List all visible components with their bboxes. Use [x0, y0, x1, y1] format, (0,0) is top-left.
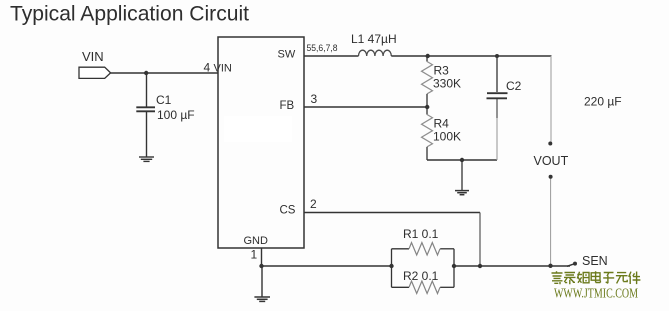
node A junction (VIN / C1)	[144, 71, 148, 75]
label L1 47uH	[351, 32, 397, 46]
wire inductor to top-right corner	[391, 55, 551, 57]
wire R1 top branch right lead	[440, 248, 454, 250]
node F (VOUT upper dot)	[548, 142, 552, 146]
wire R2 bottom branch right lead	[440, 286, 454, 288]
svg-text:330K: 330K	[433, 77, 461, 91]
svg-text:C1: C1	[156, 93, 172, 107]
svg-text:100K: 100K	[433, 130, 461, 144]
svg-text:VIN: VIN	[82, 49, 104, 64]
wire node D to R4 top	[426, 107, 428, 115]
pin number 2	[310, 197, 317, 211]
pin number 1	[251, 248, 258, 262]
capacitor C2	[487, 93, 508, 98]
label R2 0.1	[403, 269, 439, 283]
node D junction (FB / R3 / R4)	[425, 105, 429, 109]
ground G2 (R4/C2)	[455, 191, 469, 195]
node J (R1R2 right node)	[452, 264, 456, 268]
svg-text:SEN: SEN	[582, 254, 608, 268]
node L (VOUT rail / sense rail)	[548, 264, 552, 268]
svg-text:55,6,7,8: 55,6,7,8	[307, 43, 338, 54]
net label VIN	[82, 49, 104, 64]
capacitor C1	[136, 107, 155, 111]
SEN arrow tip	[567, 262, 577, 267]
wire node C to C2 top	[496, 56, 498, 92]
wire R4 bottom to baseline	[426, 147, 428, 160]
wire node E to ground G2	[461, 160, 463, 190]
inductor L1	[359, 50, 392, 56]
svg-text:R1 0.1: R1 0.1	[403, 227, 439, 241]
svg-text:2: 2	[310, 197, 317, 211]
svg-text:R4: R4	[434, 117, 450, 131]
svg-text:4: 4	[204, 61, 211, 75]
wire R1R2 left edge	[391, 249, 393, 287]
watermark chinese text (drawn strokes)	[552, 271, 641, 284]
svg-text:SW: SW	[278, 48, 296, 60]
pin name VIN	[214, 63, 232, 75]
svg-text:VIN: VIN	[214, 63, 232, 75]
ground G1 (C1)	[139, 157, 154, 161]
wire VIN input to IC pin 4	[111, 72, 218, 74]
wire CS pin horizontal	[304, 212, 480, 214]
wire FB pin to node D	[304, 106, 428, 108]
wire R1R2 right edge	[453, 249, 455, 287]
wire R4 bottom rail to C2 bottom	[427, 159, 497, 161]
node C junction (top wire / C2)	[495, 54, 499, 58]
wire node H to ground G3	[261, 266, 263, 297]
input connector VIN tag	[79, 67, 111, 78]
title: Typical Application Circuit	[10, 2, 249, 25]
node I (R1R2 left node)	[389, 264, 393, 268]
resistor R4	[422, 115, 433, 147]
wire sense rail to SEN	[454, 265, 570, 267]
svg-text:R2 0.1: R2 0.1	[403, 269, 439, 283]
wire node A to C1 top	[146, 73, 148, 107]
svg-text:3: 3	[311, 92, 318, 106]
resistor R2	[409, 281, 440, 293]
IC U1 body	[218, 37, 304, 248]
svg-text:GND: GND	[244, 235, 269, 247]
resistor R1	[409, 243, 440, 255]
label 220 uF	[584, 95, 622, 109]
node H junction (GND pin / bottom rail)	[259, 264, 263, 268]
wire R2 bottom branch left lead	[392, 286, 410, 288]
resistor R3	[422, 62, 433, 94]
pin name FB	[280, 100, 295, 112]
wire GND pin stem	[261, 248, 263, 266]
svg-text:C2: C2	[506, 79, 522, 93]
label R1 0.1	[403, 227, 439, 241]
pin number 4	[204, 61, 211, 75]
svg-text:L1 47µH: L1 47µH	[351, 32, 397, 46]
label C1 100 uF	[156, 93, 195, 122]
pin number 55,6,7,8	[307, 43, 338, 54]
watermark url text	[554, 287, 638, 302]
node K (CS / sense rail)	[478, 264, 482, 268]
wire C1 bottom to ground	[146, 112, 148, 157]
label R4 100K	[433, 117, 461, 144]
node B junction (SW / R3)	[426, 54, 430, 58]
ground G3 (IC GND)	[254, 297, 270, 301]
svg-text:220 µF: 220 µF	[584, 95, 622, 109]
wire C2 bottom lead	[496, 99, 498, 160]
svg-text:FB: FB	[280, 100, 295, 112]
svg-text:R3: R3	[434, 64, 450, 78]
wire bottom rail GND to R1R2 left	[262, 265, 392, 267]
node E junction (rail / ground)	[460, 158, 464, 162]
wire CS vertical to sense rail	[479, 213, 481, 267]
svg-text:WWW.JTMIC.COM: WWW.JTMIC.COM	[554, 287, 638, 302]
wire SW pin to inductor	[304, 55, 359, 57]
wire node B to R3 top	[426, 56, 428, 62]
wire R3 bottom to node D	[426, 94, 428, 107]
svg-text:VOUT: VOUT	[534, 154, 569, 168]
svg-text:CS: CS	[280, 205, 296, 217]
pin name GND	[244, 235, 269, 247]
pin name CS	[280, 205, 296, 217]
net label SEN	[582, 254, 608, 268]
svg-text:Typical Application Circuit: Typical Application Circuit	[10, 2, 249, 25]
node G (VOUT lower dot)	[549, 175, 553, 179]
pin number 3	[311, 92, 318, 106]
wire right vertical VOUT rail	[550, 56, 552, 266]
wire R1 top branch left lead	[392, 248, 410, 250]
label VOUT	[534, 154, 569, 168]
label R3 330K	[433, 64, 461, 91]
pin name SW	[278, 48, 296, 60]
label C2	[506, 79, 522, 93]
svg-text:100 µF: 100 µF	[157, 108, 195, 122]
svg-text:1: 1	[251, 248, 258, 262]
